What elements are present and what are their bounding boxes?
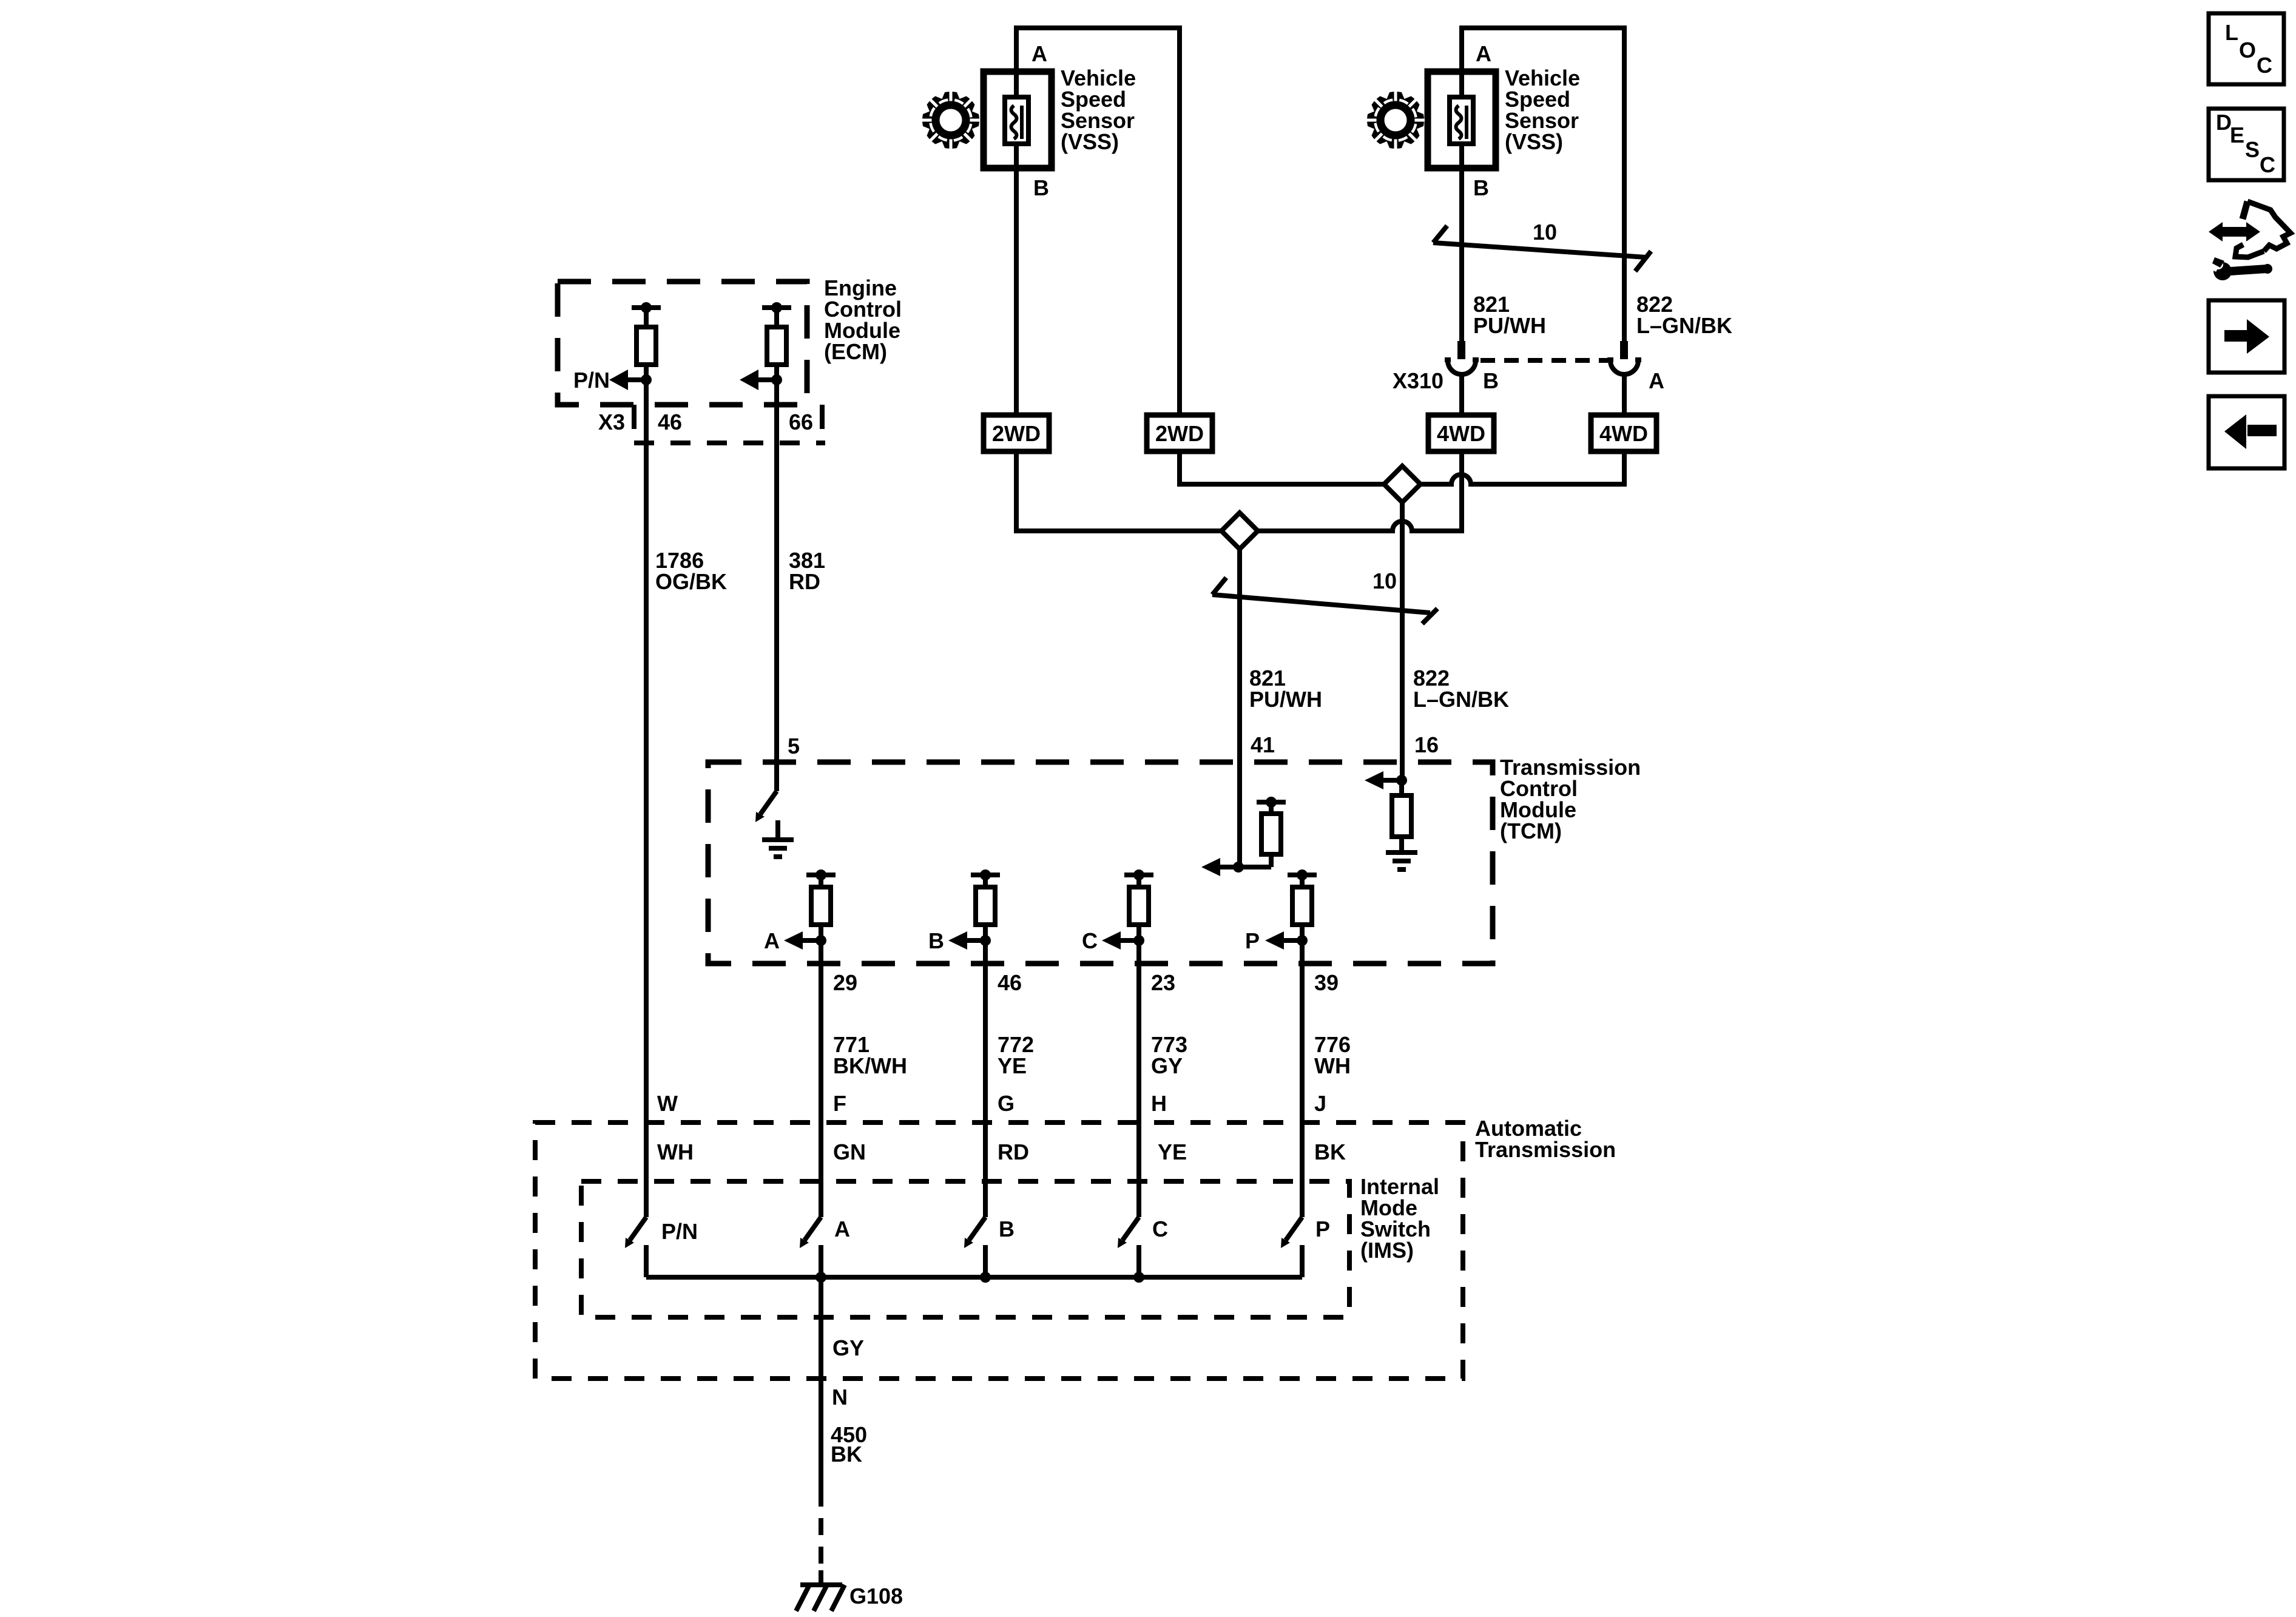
switch contact TCM pin 5 — [755, 791, 777, 822]
wire label 450 BK — [831, 1422, 867, 1467]
splice diamond on line B — [1221, 513, 1258, 549]
sidebar LOC letters — [2225, 20, 2272, 78]
wire: left VSS loop right vertical — [1177, 25, 1182, 484]
svg-text:46: 46 — [998, 970, 1022, 995]
resistor TCM pin 29 driver — [806, 869, 836, 940]
svg-text:A: A — [1032, 41, 1047, 66]
svg-text:A: A — [1476, 41, 1491, 66]
svg-text:C: C — [2260, 152, 2275, 177]
svg-text:E: E — [2230, 123, 2244, 147]
svg-text:2WD: 2WD — [992, 421, 1041, 446]
wire: 821 between X310 cup and line B — [1459, 373, 1464, 533]
label Vehicle Speed Sensor (VSS) 2 — [1505, 66, 1580, 154]
ECM dashed box — [558, 282, 807, 405]
2WD box 1 — [984, 415, 1049, 451]
ground (TCM internal, pin 16) — [1386, 852, 1417, 869]
wire: 773 GY / H circuit (TCM 23 to IMS C) — [1136, 940, 1141, 1217]
svg-text:F: F — [833, 1091, 846, 1116]
wire: pin 41 junction to pull-up resistor — [1238, 865, 1271, 869]
svg-text:C: C — [2257, 53, 2272, 78]
vehicle speed sensor 1 outer box — [984, 72, 1052, 168]
wire label 772 YE — [998, 1032, 1034, 1078]
resistor TCM pin 16 load — [1392, 780, 1411, 851]
svg-text:16: 16 — [1414, 732, 1439, 757]
svg-text:P/N: P/N — [661, 1219, 698, 1244]
sidebar forward arrow box — [2209, 300, 2284, 373]
svg-text:X3: X3 — [598, 410, 625, 434]
resistor ECM pin 46 driver — [632, 302, 661, 380]
svg-text:10: 10 — [1533, 220, 1557, 245]
vehicle speed sensor 2 outer box — [1428, 72, 1496, 168]
splice diamond on line A — [1384, 466, 1420, 502]
svg-text:GN: GN — [833, 1139, 866, 1164]
junction dot bus C — [1133, 1272, 1144, 1283]
svg-text:X310: X310 — [1393, 368, 1443, 393]
svg-text:5: 5 — [788, 734, 800, 758]
svg-text:BK/WH: BK/WH — [833, 1053, 907, 1078]
wire label 1786 OG/BK — [655, 548, 727, 594]
sidebar DESC letters — [2216, 110, 2275, 177]
svg-text:4WD: 4WD — [1599, 421, 1648, 446]
svg-text:BK: BK — [831, 1442, 862, 1467]
sidebar DESC box — [2209, 109, 2284, 180]
svg-text:29: 29 — [833, 970, 857, 995]
svg-text:WH: WH — [1314, 1053, 1351, 1078]
X310 female terminal A — [1607, 357, 1641, 374]
wire: IMS common bus — [646, 1275, 1302, 1280]
svg-text:(VSS): (VSS) — [1061, 129, 1119, 154]
switch contact P/N (IMS) — [625, 1217, 646, 1277]
switch contact C (IMS) — [1118, 1217, 1139, 1277]
svg-text:Transmission: Transmission — [1475, 1137, 1616, 1162]
automatic transmission dashed box — [535, 1122, 1463, 1379]
harness slash 10 (middle) — [1212, 578, 1437, 624]
svg-text:GY: GY — [832, 1335, 864, 1360]
X310 dashed connector link — [1481, 358, 1608, 363]
sidebar tool icon wrench — [2207, 257, 2272, 280]
ground G108 — [796, 1570, 845, 1611]
wire: left VSS pin A/B vertical (1786 circuit) — [1014, 25, 1019, 533]
wire label 381 RD — [789, 548, 825, 594]
harness slash 10 (upper, at right VSS) — [1433, 226, 1651, 271]
svg-text:L–GN/BK: L–GN/BK — [1636, 313, 1732, 338]
svg-text:A: A — [764, 928, 780, 953]
svg-text:39: 39 — [1314, 970, 1339, 995]
svg-text:(ECM): (ECM) — [824, 339, 887, 364]
switch contact B (IMS) — [964, 1217, 985, 1277]
gear icon 2 — [1359, 83, 1433, 157]
svg-text:YE: YE — [1158, 1139, 1187, 1164]
svg-text:(VSS): (VSS) — [1505, 129, 1563, 154]
svg-text:J: J — [1314, 1091, 1326, 1116]
pin arrow (TCM 41) — [1201, 858, 1244, 876]
wire label 821 PU/WH (middle) — [1249, 666, 1322, 712]
wire: 381 RD (ECM 66 to TCM pin 5) — [774, 365, 779, 791]
label Internal Mode Switch (IMS) — [1360, 1174, 1439, 1263]
X3 connector box — [634, 405, 825, 443]
wire label 822 L-GN/BK (upper) — [1636, 292, 1732, 338]
4WD box 2 — [1591, 415, 1656, 451]
svg-text:B: B — [1473, 175, 1489, 200]
resistor TCM pin 41 pull-up — [1257, 797, 1286, 867]
wire: 1786 OG/BK / W circuit (ECM 46 to IMS P/N) — [644, 365, 649, 1217]
svg-text:P/N: P/N — [573, 368, 610, 393]
sidebar LOC box — [2209, 13, 2284, 84]
wire: right VSS pin B vertical to X310 plug — [1459, 25, 1464, 341]
wire: 450 BK dashed segment to G108 — [819, 1490, 823, 1570]
gear icon 1 — [914, 83, 988, 157]
wire: 450 BK solid segment below IMS — [819, 1275, 823, 1490]
svg-text:A: A — [1649, 368, 1664, 393]
sidebar forward arrow — [2224, 319, 2269, 354]
svg-text:41: 41 — [1251, 732, 1275, 757]
switch contact A (IMS) — [800, 1217, 821, 1277]
svg-text:OG/BK: OG/BK — [655, 569, 727, 594]
sidebar tool icon double arrow — [2209, 222, 2260, 241]
svg-text:W: W — [657, 1091, 678, 1116]
wire: 822 L-GN/BK drop from splice to TCM pin 16 — [1400, 501, 1405, 780]
vehicle speed sensor 2 inner element — [1450, 97, 1473, 144]
wire: right VSS loop top — [1462, 25, 1624, 30]
wire label 771 BK/WH — [833, 1032, 907, 1078]
sidebar back arrow — [2224, 414, 2277, 449]
svg-text:4WD: 4WD — [1437, 421, 1485, 446]
svg-text:RD: RD — [998, 1139, 1029, 1164]
sidebar tool icon part outline — [2235, 201, 2291, 257]
wire: 821 PU/WH drop from splice to TCM pin 41 — [1237, 548, 1242, 867]
pin arrow (TCM 16) — [1365, 771, 1407, 789]
pin arrow C (TCM 23) — [1082, 928, 1144, 953]
pin arrow P (TCM 39) — [1245, 928, 1308, 953]
resistor TCM pin 46 driver — [971, 869, 1000, 940]
svg-text:PU/WH: PU/WH — [1249, 687, 1322, 712]
svg-text:GY: GY — [1151, 1053, 1183, 1078]
wire label 822 L-GN/BK (middle) — [1413, 666, 1509, 712]
svg-text:B: B — [1483, 368, 1499, 393]
internal mode switch dashed box — [581, 1181, 1349, 1317]
svg-text:23: 23 — [1151, 970, 1175, 995]
svg-text:2WD: 2WD — [1155, 421, 1204, 446]
terminal colour labels WH GN RD YE BK — [657, 1139, 1346, 1164]
wire: 771 BK/WH / F circuit (TCM 29 to IMS A) — [819, 940, 823, 1217]
svg-text:C: C — [1152, 1217, 1168, 1241]
svg-text:YE: YE — [998, 1053, 1027, 1078]
svg-text:66: 66 — [789, 410, 813, 434]
4WD box 1 — [1428, 415, 1494, 451]
svg-text:P: P — [1315, 1217, 1330, 1241]
wire: horizontal line A (2WD-2 to 4WD-2) with crossover hop — [1180, 474, 1624, 484]
wire label 776 WH — [1314, 1032, 1351, 1078]
svg-text:P: P — [1245, 928, 1260, 953]
svg-text:L–GN/BK: L–GN/BK — [1413, 687, 1509, 712]
svg-text:WH: WH — [657, 1139, 694, 1164]
X310 male terminal B — [1457, 341, 1465, 359]
svg-text:O: O — [2239, 38, 2256, 62]
label Vehicle Speed Sensor (VSS) 1 — [1061, 66, 1136, 154]
switch contact P (IMS) — [1281, 1217, 1302, 1277]
svg-text:10: 10 — [1373, 569, 1397, 593]
resistor TCM pin 23 driver — [1124, 869, 1153, 940]
svg-text:H: H — [1151, 1091, 1167, 1116]
svg-text:A: A — [834, 1217, 850, 1241]
pin letters W F G H J — [657, 1091, 1326, 1116]
resistor TCM pin 39 driver — [1288, 869, 1317, 940]
label Transmission Control Module (TCM) — [1500, 755, 1641, 843]
svg-text:46: 46 — [658, 410, 682, 434]
svg-text:BK: BK — [1314, 1139, 1346, 1164]
wire label 773 GY — [1151, 1032, 1187, 1078]
pin arrow P/N (ECM 46) — [609, 370, 652, 390]
wire label 821 PU/WH (upper) — [1473, 292, 1546, 338]
junction dot bus A — [815, 1272, 826, 1283]
svg-text:B: B — [999, 1217, 1015, 1241]
wire: 772 YE / G circuit (TCM 46 to IMS B) — [983, 940, 988, 1217]
wire: horizontal line B (2WD-1 to 4WD-1) with crossover hop — [1016, 521, 1462, 531]
resistor ECM pin 66 driver — [762, 302, 791, 380]
svg-text:(TCM): (TCM) — [1500, 819, 1562, 843]
svg-text:RD: RD — [789, 569, 820, 594]
pin arrow (ECM 66) — [740, 370, 782, 390]
label Automatic Transmission — [1475, 1116, 1616, 1162]
svg-text:L: L — [2225, 20, 2238, 45]
wire: left VSS loop top — [1016, 25, 1180, 30]
junction dot bus B — [980, 1272, 991, 1283]
TCM dashed box — [708, 762, 1493, 964]
pin arrow B (TCM 46) — [928, 928, 991, 953]
label Engine Control Module (ECM) — [824, 275, 902, 364]
svg-text:G: G — [998, 1091, 1015, 1116]
ground (TCM internal, pin 5) — [762, 820, 794, 857]
svg-text:PU/WH: PU/WH — [1473, 313, 1546, 338]
wire: right VSS loop right vertical to X310 plug — [1622, 25, 1627, 341]
pin arrow A (TCM 29) — [764, 928, 826, 953]
wire: 822 between X310 cup and line A — [1622, 373, 1627, 487]
vehicle speed sensor 1 inner element — [1005, 97, 1028, 144]
X310 male terminal A — [1620, 341, 1628, 359]
svg-text:G108: G108 — [849, 1584, 903, 1609]
wire: 776 WH / J circuit (TCM 39 to IMS P) — [1300, 940, 1305, 1217]
svg-text:S: S — [2245, 137, 2260, 162]
svg-text:N: N — [832, 1385, 848, 1409]
X310 female terminal B — [1445, 357, 1479, 374]
svg-text:B: B — [928, 928, 944, 953]
sidebar back arrow box — [2209, 396, 2284, 468]
2WD box 2 — [1147, 415, 1212, 451]
svg-text:(IMS): (IMS) — [1360, 1238, 1414, 1263]
svg-text:B: B — [1033, 175, 1049, 200]
svg-text:C: C — [1082, 928, 1098, 953]
